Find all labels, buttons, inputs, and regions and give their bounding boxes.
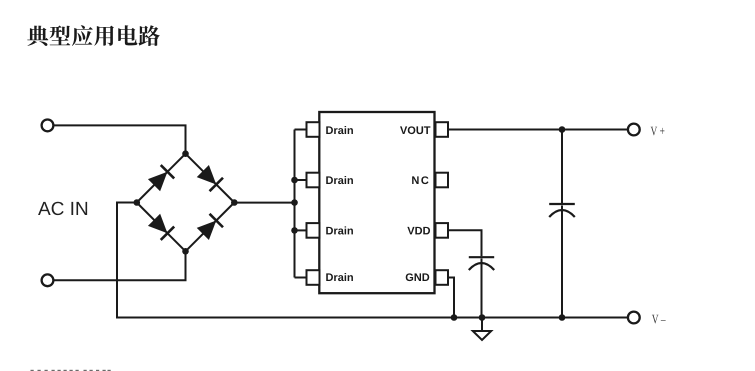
terminal circle AC top (42, 120, 54, 132)
junction bridge top node (182, 150, 189, 157)
wire ground lead (481, 318, 483, 332)
capacitor C2 (output) (549, 204, 575, 217)
wire left node to V- rail (117, 203, 628, 318)
label V+ (651, 127, 665, 136)
terminal circle V- (628, 312, 640, 324)
wire C2 top lead (561, 130, 563, 204)
wire C1 bottom lead (481, 259, 483, 318)
wire C2 bottom lead (561, 206, 563, 318)
label V- (652, 315, 666, 324)
title 典型应用电路 (27, 25, 160, 46)
wire bus stub pin1 (295, 129, 308, 131)
junction rail GND drop (451, 314, 458, 321)
label NC (412, 176, 428, 184)
label AC IN (38, 202, 87, 215)
wire VOUT to V+ terminal (448, 129, 628, 131)
label GND (406, 273, 430, 281)
junction rail C2 bottom (559, 314, 566, 321)
diode D4 lower-right (179, 196, 241, 258)
junction bridge left node (134, 199, 141, 206)
ground symbol (473, 331, 491, 340)
label Drain pin4 (326, 273, 353, 281)
label Drain pin3 (326, 226, 353, 234)
wire VDD pin to C1 (448, 230, 482, 256)
junction bus pin2 (291, 177, 298, 184)
wire bus stub pin4 (295, 277, 308, 279)
capacitor C1 (VDD bypass) (469, 257, 494, 270)
wire bus stub pin2 (295, 179, 308, 181)
label Drain pin1 (326, 126, 353, 134)
pin 6 box VDD (436, 223, 449, 238)
wire drain bus vertical (294, 130, 296, 278)
label VOUT (400, 126, 430, 134)
terminal circle AC bottom (42, 274, 54, 286)
pin 7 box NC (436, 173, 449, 188)
diode D1 upper-left (130, 147, 192, 209)
junction bus input (291, 199, 298, 206)
junction bridge bottom node (182, 248, 189, 255)
junction bridge right node (231, 199, 238, 206)
wire top AC input horizontal (54, 125, 186, 153)
junction node V+ / C2 top (559, 126, 566, 133)
diode bridge D1-D4 (130, 147, 241, 258)
pin 4 box Drain (307, 270, 320, 285)
wire GND pin to rail (448, 278, 455, 318)
junction rail C1 / ground (479, 314, 486, 321)
pin 1 box Drain (307, 122, 320, 137)
pin 3 box Drain (307, 223, 320, 238)
label VDD (407, 227, 430, 235)
diode D3 lower-left (130, 196, 192, 258)
pin 2 box Drain (307, 173, 320, 188)
diode D2 upper-right (179, 147, 241, 209)
pin 8 box VOUT (436, 122, 449, 137)
terminal circle V+ (628, 124, 640, 136)
pin 5 box GND (436, 270, 449, 285)
bottom clipped text sliver (31, 370, 111, 371)
label Drain pin2 (326, 176, 353, 184)
wire bridge right node to drain bus (234, 202, 294, 204)
wire bus stub pin3 (295, 229, 308, 231)
IC U1 body (319, 112, 434, 293)
junction bus pin3 (291, 227, 298, 234)
wire bottom AC input horizontal (54, 251, 186, 280)
